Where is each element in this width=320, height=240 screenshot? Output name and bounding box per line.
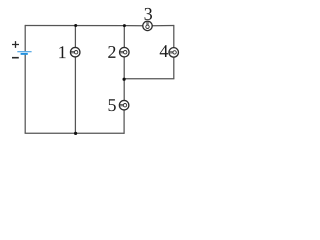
wire lamp4 branch upper bbox=[173, 25, 175, 48]
battery positive plate (long blue line) bbox=[17, 51, 31, 53]
plus label bbox=[12, 41, 19, 48]
wire junction to lamp5 bbox=[123, 79, 125, 100]
label 5 bbox=[109, 99, 116, 111]
lamp 1 bbox=[70, 47, 80, 57]
wire lamp2 to junction bbox=[123, 57, 125, 79]
lamp 3 bbox=[143, 21, 152, 30]
wire lamp1 branch upper bbox=[74, 26, 76, 48]
junction dot middle (lamp4 join) bbox=[123, 78, 126, 81]
wire lamp2 branch upper bbox=[123, 26, 125, 48]
wire lamp5 to bottom bbox=[123, 110, 125, 134]
label 3 bbox=[145, 8, 152, 20]
junction dot bottom (lamp1 bottom tap) bbox=[74, 132, 77, 135]
label 2 bbox=[108, 46, 115, 58]
wire lamp4 branch lower bbox=[173, 57, 175, 79]
wire bottom horizontal bbox=[25, 132, 124, 134]
lamp 4 bbox=[169, 48, 179, 58]
junction dot top left (lamp1 tap) bbox=[74, 24, 77, 27]
lamp 2 bbox=[120, 47, 130, 57]
wire left branch lower (battery bottom) bbox=[24, 55, 26, 134]
label 1 bbox=[59, 46, 65, 58]
junction dot top mid (lamp2 tap) bbox=[123, 24, 126, 27]
wire middle horizontal bbox=[124, 78, 174, 80]
lamp 5 bbox=[119, 100, 129, 110]
label 4 bbox=[160, 45, 168, 57]
minus label bbox=[12, 57, 19, 59]
wire top horizontal right of lamp 3 bbox=[152, 25, 174, 27]
wire top horizontal bbox=[25, 25, 143, 27]
wire lamp1 branch lower bbox=[74, 57, 76, 133]
battery negative plate (short thick blue line) bbox=[21, 53, 28, 55]
wire left branch upper (battery top) bbox=[24, 25, 26, 51]
